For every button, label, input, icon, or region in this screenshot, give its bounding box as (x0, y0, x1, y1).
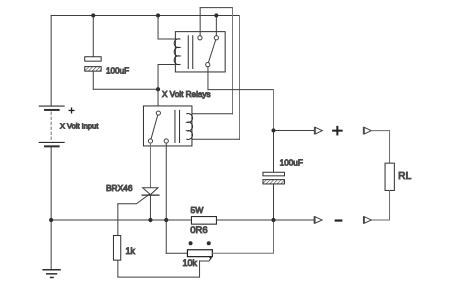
svg-text:5W: 5W (190, 205, 204, 215)
wire pot left lead (166, 252, 187, 254)
capacitor C1 100uF negative plate (hatched) (85, 67, 101, 72)
wire battery bottom to ground rail (50, 147, 52, 220)
relay K1 core lines (188, 36, 193, 69)
wire C1 to relay node (93, 88, 158, 90)
wire rail to K1 coil top (158, 15, 180, 39)
resistor R1 1k (113, 236, 120, 261)
ground symbol (43, 270, 60, 278)
relay K1 box (175, 32, 225, 72)
wire bottom rail left (51, 219, 191, 221)
battery B1 X Volt Input (39, 106, 64, 146)
thyristor Q1 BRX46 gate wire (118, 188, 158, 204)
wire bottom rail right of R2 (216, 219, 313, 221)
wire C1 bottom (92, 71, 94, 89)
svg-text:X Volt Input: X Volt Input (60, 121, 99, 130)
relay K2 contact bottom left (148, 139, 152, 143)
node plus junction (271, 128, 275, 132)
capacitor C2 100uF positive plate (263, 172, 285, 176)
relay K2 coil (187, 114, 193, 140)
relay K1 coil (174, 39, 180, 65)
node top rail / K1 coil (156, 13, 160, 17)
wire Q1 gate down to R1 (117, 204, 119, 236)
wire Q1 cathode down (149, 195, 151, 220)
connector arrow minus in (362, 217, 364, 224)
capacitor C2 100uF negative plate (hatched) (263, 180, 285, 184)
connector arrow plus out (313, 127, 315, 134)
wire down to ground (50, 220, 52, 269)
svg-text:100uF: 100uF (106, 67, 129, 76)
node minus rail / Q1 cathode (148, 218, 152, 222)
potentiometer VR1 terminal dot left (189, 241, 193, 245)
svg-text:0R6: 0R6 (190, 225, 207, 236)
connector arrow plus in (362, 127, 364, 134)
wire node to K2 common contact (157, 89, 159, 111)
wire top rail to capacitor C1 (92, 15, 94, 56)
wire R1 bottom (118, 260, 200, 277)
node top rail / K1 right contact (214, 13, 218, 17)
wire down to plus node (273, 90, 275, 131)
wire K2 right contact down to rail (165, 143, 167, 253)
potentiometer VR1 wiper arrow (200, 258, 211, 261)
wire rail end down (239, 15, 241, 139)
potentiometer VR1 body (187, 250, 212, 257)
potentiometer VR1 terminal dot right (207, 241, 211, 245)
wire plus node down to C2 (273, 130, 275, 172)
wire plus rail (274, 129, 314, 131)
label plus (333, 130, 342, 132)
relay K2 switch blade (150, 113, 158, 141)
thyristor Q1 cathode bar (142, 194, 159, 196)
label minus (336, 219, 342, 221)
node minus rail / K2 contact (164, 218, 168, 222)
relay K2 contact bottom right (164, 139, 168, 143)
svg-text:X Volt Relays: X Volt Relays (162, 90, 211, 99)
relay K2 box (143, 106, 192, 146)
node top rail / C1 (91, 13, 95, 17)
svg-text:RL: RL (398, 171, 411, 182)
wire K1 left contact up (199, 8, 201, 36)
wire K1 right contact to rail (215, 15, 217, 35)
wire to plus node (208, 89, 274, 91)
wire pot right lead (212, 220, 273, 253)
wire to K2 coil top (187, 113, 233, 115)
relay K1 switch blade (208, 38, 217, 65)
wire left vertical battery top (50, 15, 52, 105)
relay K1 contact right (214, 36, 218, 40)
wire to K2 coil bottom (187, 138, 240, 140)
wire top rail (51, 14, 239, 16)
resistor R2 0R6 (191, 217, 216, 225)
svg-text:10k: 10k (182, 258, 197, 268)
capacitor C1 100uF positive plate (85, 57, 101, 61)
svg-text:BRX46: BRX46 (106, 183, 133, 193)
wire inner loop top (200, 7, 232, 9)
wire plus to RL (371, 131, 389, 164)
relay K1 contact left (198, 36, 202, 40)
wire C2 bottom to minus rail (273, 184, 275, 220)
node relay common (C1/K1 coil/K2 common) (156, 87, 160, 91)
wire K1 coil bottom to node (158, 64, 180, 89)
wire RL to minus rail (371, 190, 389, 220)
label battery plus (69, 109, 74, 111)
relay K1 contact bottom (206, 63, 210, 67)
wire inner loop right vertical (232, 8, 234, 114)
svg-text:100uF: 100uF (280, 159, 303, 168)
connector arrow minus out (313, 217, 315, 224)
wire K2 contact to SCR anode (149, 143, 151, 188)
relay K2 core lines (175, 110, 180, 142)
svg-text:1k: 1k (125, 246, 135, 256)
thyristor Q1 triangle (143, 188, 158, 195)
resistor RL (385, 163, 394, 190)
node minus rail / C2 (271, 218, 275, 222)
wire K1 bottom contact down (207, 67, 209, 90)
node minus rail / battery (49, 218, 53, 222)
relay K2 contact top (156, 111, 160, 115)
